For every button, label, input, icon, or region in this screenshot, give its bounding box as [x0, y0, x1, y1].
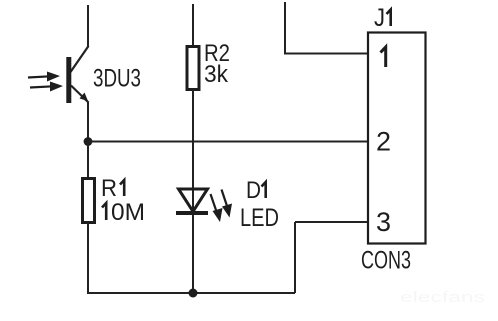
- wire: pin1 horizontal stub: [284, 53, 368, 55]
- svg-text:3DU3: 3DU3: [93, 65, 141, 93]
- wire: node A down to R1: [87, 142, 89, 178]
- resistor R2 body: [187, 47, 199, 90]
- wire: R2 bottom through LED to bottom rail: [192, 89, 194, 293]
- wire: pin1 vertical drop: [284, 2, 286, 54]
- light arrow 1: [28, 76, 50, 77]
- svg-text:J: J: [374, 4, 385, 32]
- connector J1 body: [368, 33, 426, 244]
- emitter arrowhead: [80, 93, 89, 102]
- wire: R2 top feed: [192, 4, 194, 46]
- LED emission arrow 2: [222, 190, 228, 207]
- svg-text:CON3: CON3: [361, 247, 411, 275]
- LED emission arrow 1: [211, 194, 218, 213]
- svg-text:D: D: [246, 177, 261, 204]
- wire: bottom rail: [87, 292, 295, 294]
- svg-text:3: 3: [376, 207, 391, 237]
- svg-text:3k: 3k: [204, 61, 229, 88]
- wire: top feed to phototransistor collector: [87, 5, 89, 47]
- node A junction dot: [84, 137, 93, 146]
- pin 1 number: [381, 47, 386, 67]
- LED D1 cathode bar: [176, 211, 208, 215]
- wire: pin3 vertical drop to bottom rail: [294, 222, 296, 293]
- wire: R1 down to bottom rail: [87, 222, 89, 293]
- wire: pin3 horizontal stub: [295, 221, 368, 223]
- wire: pin2 long stub from node A: [88, 141, 368, 143]
- resistor R1 body: [83, 179, 95, 223]
- svg-text:2: 2: [376, 127, 391, 157]
- bottom rail junction dot: [189, 289, 198, 298]
- LED D1 triangle: [179, 189, 208, 212]
- svg-text:0M: 0M: [111, 199, 145, 226]
- transistor Q1 base bar: [66, 57, 71, 103]
- svg-text:R: R: [101, 175, 117, 202]
- wire: emitter diagonal: [71, 86, 89, 103]
- light arrow 2: [30, 86, 53, 87]
- svg-text:LED: LED: [240, 204, 279, 232]
- wire: emitter down to node A: [87, 102, 89, 142]
- svg-text:elecfans: elecfans: [400, 289, 485, 306]
- wire: collector diagonal: [71, 46, 89, 72]
